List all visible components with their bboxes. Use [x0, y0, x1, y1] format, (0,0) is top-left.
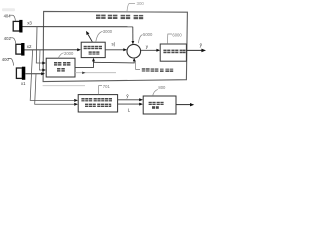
beamformer text line 1 [54, 62, 70, 66]
recognizer box 800 [143, 96, 176, 114]
svg-text:2000: 2000 [64, 51, 74, 56]
microphone M2 (402) [16, 44, 22, 54]
svg-text:x3: x3 [27, 21, 32, 26]
detector text line 2 [85, 104, 111, 107]
post box text [163, 50, 185, 54]
wire x1 (mic3 into outer box) [25, 73, 41, 75]
wire E (x1 tap down to detector) [35, 74, 74, 104]
faint double bottom line [43, 85, 85, 87]
arrowhead recognizer output [190, 103, 194, 106]
arrowhead up into filter box [92, 58, 95, 62]
wire circle output to post box [141, 49, 157, 51]
beamformer text line 2 [57, 68, 65, 72]
summing circle 5000 [127, 44, 141, 58]
leader 5000 [138, 35, 142, 44]
detector box 701 (new noise environment detection) [78, 95, 117, 112]
arrowhead up into circle bottom [133, 58, 136, 61]
leader 800 [153, 89, 158, 95]
wire branch to summing node [94, 61, 135, 63]
arrowhead down into circle top [132, 41, 135, 44]
beamformer box 2000 [46, 58, 75, 77]
text texture slits [54, 16, 186, 106]
leader 402 [10, 38, 16, 44]
title text (Korean, simulated blobs) [96, 15, 143, 20]
svg-text:402: 402 [4, 36, 12, 41]
svg-text:400: 400 [2, 57, 10, 62]
svg-text:6000: 6000 [172, 32, 182, 37]
adaptation arrow (diagonal through box corner) [88, 34, 92, 41]
small arrow mark on secondary wire [82, 72, 85, 75]
wire x3 (mic1 to corner above summing circle) [23, 26, 133, 28]
svg-text:x1: x1 [21, 81, 26, 86]
microphone M3 (400) [16, 68, 22, 78]
arrowhead final output [201, 49, 206, 53]
arrowhead detector input 2 [74, 103, 78, 106]
wire final output [187, 49, 203, 51]
wire filter output to summing node [105, 49, 124, 51]
wire x3 down into circle top [132, 27, 134, 42]
arrowhead recognizer input 2 [139, 103, 143, 106]
microphone M1 (404) [13, 21, 20, 31]
leader 2000 [58, 53, 63, 58]
wire detector to recognizer 2 [118, 103, 140, 105]
svg-text:5000: 5000 [143, 32, 153, 37]
wire branch A (x3 down to beamformer input 1) [36, 27, 42, 63]
arrowhead recognizer input 1 [139, 98, 143, 101]
wire D (x2 tap down to detector) [30, 50, 74, 101]
leader 3000 [96, 31, 103, 41]
svg-text:s): s) [112, 41, 116, 46]
leader 6000 [167, 34, 172, 44]
adaptive filter box 3000 [81, 42, 105, 57]
leader 400 [8, 58, 14, 65]
arrowhead beamformer input 2 [42, 69, 46, 72]
post-processing box 6000 [160, 44, 186, 61]
arrowhead at outer box edge [41, 72, 45, 75]
arrowhead into post box [156, 49, 160, 52]
outer box 300 (signal processing apparatus) [43, 11, 187, 81]
arrowhead detector input 1 [74, 99, 78, 102]
recognizer text line 2 [152, 106, 159, 109]
faint figure caption [2, 8, 15, 11]
leader to outer box [127, 3, 135, 11]
arrowhead into circle [123, 48, 127, 51]
recognizer text line 1 [149, 102, 164, 105]
svg-text:3000: 3000 [103, 29, 113, 34]
detector text line 1 [81, 98, 112, 101]
filter text line 2 [89, 51, 100, 54]
wire branch B (x2 down to beamformer input 2) [39, 50, 42, 70]
leader 404 [10, 15, 16, 20]
faint secondary wire [75, 72, 116, 74]
leader 701 [98, 86, 102, 95]
filter text line 1 [84, 46, 102, 49]
wire x2 (mic2 to adaptive filter box) [25, 49, 78, 51]
svg-text:300: 300 [137, 1, 145, 6]
svg-text:404: 404 [4, 14, 12, 19]
arrowhead into filter box [77, 48, 81, 51]
wire recognizer output [176, 104, 191, 106]
wire detector to recognizer 1 [118, 99, 140, 101]
svg-text:701: 701 [103, 84, 111, 89]
svg-text:800: 800 [158, 85, 166, 90]
label under circle (noise-removed signal, leader + Korean blobs) [136, 61, 140, 70]
wire beamformer output [75, 61, 94, 67]
arrowhead beamformer input 1 [42, 62, 46, 65]
svg-text:x2: x2 [27, 44, 32, 49]
